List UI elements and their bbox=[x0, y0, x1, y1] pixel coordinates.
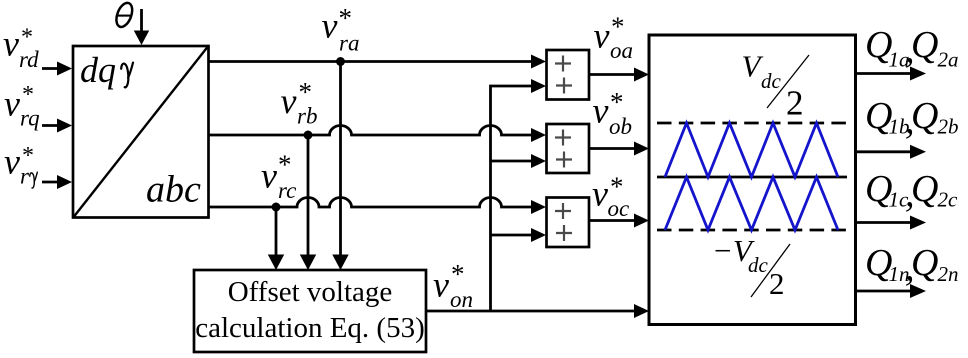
svg-text:v: v bbox=[4, 84, 20, 124]
input wire v*_rgamma bbox=[42, 175, 72, 189]
carrier wave upper bbox=[665, 123, 838, 177]
output wire Q1n,Q2n bbox=[856, 284, 927, 298]
input wire v*_rd bbox=[42, 62, 72, 76]
wire v*_rc drop to offset block bbox=[268, 207, 284, 270]
adder S2 bbox=[547, 124, 590, 173]
label v*_rb bbox=[281, 77, 318, 129]
label Q1n,Q2n bbox=[865, 242, 959, 289]
svg-text:rd: rd bbox=[19, 47, 39, 72]
output wire Q1a,Q2a bbox=[856, 67, 927, 81]
svg-text:v: v bbox=[261, 156, 277, 196]
theta input label bbox=[113, 1, 135, 29]
svg-text:v: v bbox=[433, 265, 449, 305]
svg-text:v: v bbox=[593, 91, 609, 131]
svg-text:*: * bbox=[22, 82, 34, 108]
wire adder S3 output bbox=[589, 214, 649, 228]
wire adder S1 output bbox=[589, 68, 649, 82]
svg-text:v: v bbox=[4, 142, 20, 182]
wire v*_on branch to adder 2 bbox=[491, 154, 547, 168]
svg-text:v: v bbox=[322, 6, 338, 46]
svg-text:rq: rq bbox=[20, 106, 40, 131]
svg-text:*: * bbox=[610, 87, 624, 117]
svg-text:oa: oa bbox=[610, 38, 633, 63]
wire v*_ra drop to offset block bbox=[332, 62, 348, 271]
wire adder S2 output bbox=[589, 142, 649, 156]
label Q1c,Q2c bbox=[865, 168, 958, 215]
adder S1 bbox=[547, 50, 590, 100]
theta input wire bbox=[134, 9, 149, 45]
svg-text:abc: abc bbox=[146, 169, 201, 211]
svg-text:ob: ob bbox=[609, 114, 632, 139]
svg-text:*: * bbox=[299, 77, 313, 107]
label Q1b,Q2b bbox=[865, 95, 959, 142]
PWM comparator block U2 bbox=[649, 35, 856, 325]
wire v*_on riser bbox=[491, 79, 547, 311]
zero level line bbox=[657, 176, 847, 179]
svg-text:Q: Q bbox=[911, 95, 938, 137]
svg-text:2n: 2n bbox=[938, 262, 959, 286]
output wire Q1c,Q2c bbox=[856, 216, 927, 230]
svg-text:2a: 2a bbox=[938, 47, 959, 71]
output wire Q1b,Q2b bbox=[856, 145, 927, 159]
offset voltage calculation block bbox=[194, 270, 426, 352]
label -Vdc/2 bbox=[712, 233, 790, 301]
label v*_ob bbox=[593, 87, 633, 139]
svg-text:*: * bbox=[451, 259, 465, 289]
svg-text:ra: ra bbox=[339, 31, 359, 56]
wire v*_on branch to adder 3 bbox=[491, 228, 547, 242]
svg-text:dc: dc bbox=[748, 253, 769, 277]
wire phase b with hops bbox=[209, 126, 546, 143]
label Q1a,Q2a bbox=[865, 24, 959, 71]
label v*_oa bbox=[594, 12, 634, 64]
node B junction dot bbox=[304, 131, 313, 140]
label v*_ra bbox=[322, 3, 360, 56]
svg-text:Q: Q bbox=[911, 242, 938, 284]
input wire v*_rq bbox=[42, 119, 72, 133]
adder S3 bbox=[547, 198, 590, 248]
svg-text:2c: 2c bbox=[938, 188, 959, 212]
wire v*_rb drop to offset block bbox=[300, 135, 316, 270]
svg-text:Q: Q bbox=[911, 168, 938, 210]
svg-text:Offset voltage: Offset voltage bbox=[228, 276, 393, 308]
svg-text:rc: rc bbox=[278, 178, 296, 203]
dq-abc transformation block U1 bbox=[73, 46, 209, 218]
svg-text:rb: rb bbox=[297, 104, 317, 129]
node C junction dot bbox=[272, 203, 281, 212]
wire v*_on to PWM block bbox=[426, 304, 649, 318]
svg-text:on: on bbox=[450, 287, 473, 312]
svg-text:*: * bbox=[611, 12, 625, 42]
svg-text:2: 2 bbox=[786, 84, 804, 123]
svg-text:dc: dc bbox=[761, 69, 782, 93]
input label v*_rd bbox=[3, 24, 39, 73]
svg-text:dq: dq bbox=[80, 50, 116, 90]
input label v*_rq bbox=[4, 82, 40, 131]
dashed level +Vdc/2 bbox=[657, 122, 847, 125]
svg-text:calculation Eq. (53): calculation Eq. (53) bbox=[195, 312, 425, 344]
carrier wave lower bbox=[665, 177, 838, 230]
svg-text:2: 2 bbox=[769, 266, 785, 301]
svg-text:v: v bbox=[592, 174, 608, 214]
wire phase a bbox=[209, 55, 546, 69]
wire phase c with hops bbox=[209, 198, 546, 215]
svg-text:Q: Q bbox=[911, 24, 938, 66]
svg-text:r: r bbox=[20, 164, 30, 189]
label v*_on bbox=[433, 259, 473, 312]
svg-text:2b: 2b bbox=[938, 115, 959, 139]
input label v*_rgamma bbox=[4, 142, 37, 189]
label v*_oc bbox=[592, 172, 629, 222]
node A junction dot bbox=[336, 57, 345, 66]
dashed level -Vdc/2 bbox=[657, 229, 847, 232]
svg-text:v: v bbox=[3, 24, 19, 64]
svg-text:v: v bbox=[281, 81, 297, 121]
svg-text:*: * bbox=[339, 3, 353, 33]
label v*_rc bbox=[261, 150, 296, 204]
svg-text:*: * bbox=[278, 150, 292, 180]
svg-text:v: v bbox=[594, 16, 610, 56]
svg-text:oc: oc bbox=[608, 196, 630, 221]
label Vdc/2 bbox=[742, 49, 810, 123]
